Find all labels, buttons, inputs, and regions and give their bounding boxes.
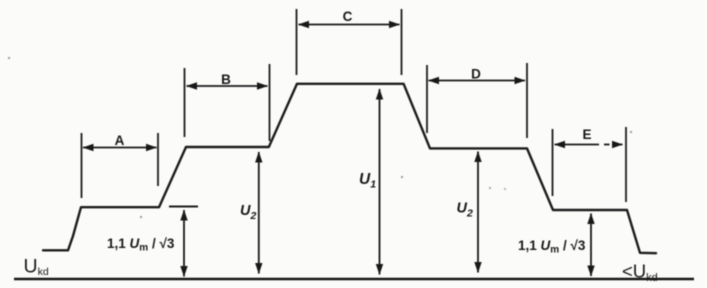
svg-text:U1: U1 <box>359 171 376 191</box>
svg-text:B: B <box>221 72 231 87</box>
svg-text:1,1 Um / √3: 1,1 Um / √3 <box>107 236 175 254</box>
svg-text:U2: U2 <box>240 203 256 222</box>
svg-text:D: D <box>471 67 481 82</box>
svg-text:E: E <box>582 127 591 142</box>
svg-text:1,1 Um / √3: 1,1 Um / √3 <box>518 238 586 256</box>
svg-text:<Ukd: <Ukd <box>622 261 658 285</box>
svg-text:U2: U2 <box>457 201 473 220</box>
svg-text:A: A <box>115 133 125 148</box>
svg-text:Ukd: Ukd <box>24 256 49 279</box>
svg-text:C: C <box>343 9 353 24</box>
